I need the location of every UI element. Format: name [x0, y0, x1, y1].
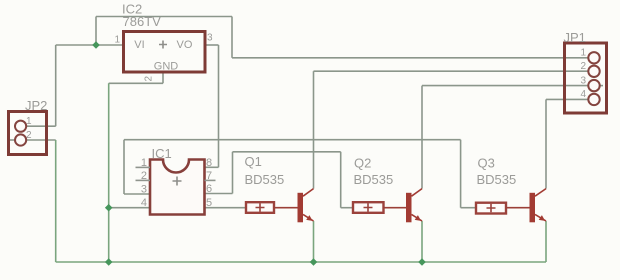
svg-text:Q3: Q3 — [478, 156, 495, 171]
JP2 connector body — [9, 112, 47, 155]
wire IC1 pin3 riser — [123, 140, 125, 194]
wire GND net: stub left of JP2 pin2 — [9, 139, 15, 141]
JP1 pin 4 circle — [588, 94, 599, 105]
svg-text:1: 1 — [141, 157, 147, 169]
Q3 plus sign — [487, 204, 496, 212]
wire GND net: JP2 pin2 horizontal — [26, 139, 56, 141]
wire GND net: left vertical down — [55, 140, 57, 262]
svg-text:4: 4 — [141, 197, 147, 209]
wire VO net: regulator pin3 stub — [205, 44, 219, 46]
svg-text:7: 7 — [206, 170, 212, 182]
wire VI net: left vertical up — [55, 45, 57, 126]
wire IC1 pin6 to Q2 base: pin6 horizontal — [205, 193, 233, 195]
wire IC1 pin3 to Q3 base: pin3 horizontal — [124, 193, 150, 195]
wire VI net: JP2 pin1 horizontal — [26, 125, 56, 127]
wire IC1 pin6 riser — [232, 152, 234, 194]
wire VI net: horizontal into regulator VI pin — [56, 44, 124, 46]
wire IC1 pin5 to Q1 plus box — [205, 207, 247, 209]
transistor Q2 emitter arrow — [415, 215, 421, 221]
svg-text:VO: VO — [177, 39, 193, 51]
IC2 plus symbol — [159, 41, 167, 49]
transistor Q1 base bar — [298, 193, 304, 223]
wire Q3 base riser — [460, 140, 462, 208]
IC2 voltage regulator body — [124, 32, 206, 73]
wire VI net: vertical above junction — [95, 17, 97, 46]
transistor Q2 base bar — [406, 193, 412, 223]
svg-text:GND: GND — [154, 61, 179, 73]
wire Q1 collector to JP1 pin2 — [314, 70, 590, 72]
IC1 plus symbol — [173, 177, 182, 186]
Q1 base stub maroon — [274, 207, 298, 209]
svg-text:1: 1 — [114, 35, 120, 46]
wire IC1 pin6 horizontal to Q2 — [233, 151, 341, 153]
wire Q2 collector riser — [421, 86, 423, 189]
svg-text:5: 5 — [206, 197, 212, 209]
wire VI net: drop to JP1 pin1 level — [231, 17, 233, 58]
JP2 pin 1 circle — [15, 121, 26, 132]
svg-text:4: 4 — [580, 89, 586, 100]
wire VI net: long horizontal to JP1 pin1 — [232, 57, 589, 59]
JP1 pin 1 circle — [588, 52, 599, 63]
junction GND rail at Q2 emitter — [418, 258, 426, 266]
wire stub right of JP1 pin3 — [600, 85, 604, 87]
wire Q2 collector to JP1 pin3 — [422, 85, 589, 87]
svg-text:BD535: BD535 — [354, 172, 394, 187]
svg-text:2: 2 — [141, 170, 147, 182]
transistor Q3 base bar — [530, 193, 536, 223]
svg-text:786TV: 786TV — [123, 14, 162, 29]
wire VI net: top horizontal — [96, 16, 232, 18]
wire Q1 collector riser — [313, 71, 315, 188]
svg-text:VI: VI — [134, 39, 144, 51]
transistor Q1 emitter arrow — [306, 215, 312, 221]
svg-text:JP2: JP2 — [25, 98, 47, 113]
junction GND rail at Q1 emitter — [310, 258, 318, 266]
svg-text:2: 2 — [26, 130, 32, 141]
wire GND net: into IC1 pin4 — [109, 207, 150, 209]
wire IC1 pin3 long horizontal — [124, 139, 461, 141]
Q2 plus sign — [364, 203, 373, 211]
svg-text:Q1: Q1 — [245, 154, 262, 169]
wire VO net: into IC1 pin8 — [205, 166, 219, 168]
wire JP1 pin4 horizontal — [546, 98, 588, 100]
wire VO net: vertical down to IC1 pin8 — [218, 45, 220, 167]
wire GND net: Q1 emitter drop — [313, 221, 315, 262]
svg-text:JP1: JP1 — [564, 30, 586, 45]
wire into Q2 plus box — [341, 207, 353, 209]
svg-text:Q2: Q2 — [354, 156, 371, 171]
JP2 pin 2 circle — [15, 134, 26, 145]
Q1 base resistor plus box — [246, 202, 274, 213]
svg-text:BD535: BD535 — [477, 172, 517, 187]
Q3 base resistor plus box — [476, 203, 506, 214]
junction VI net at regulator input — [92, 41, 100, 49]
svg-text:3: 3 — [207, 33, 213, 44]
Q1 plus sign — [256, 203, 265, 211]
wire GND net: bottom ground rail — [56, 261, 546, 263]
svg-text:IC1: IC1 — [152, 146, 172, 161]
IC1 pin 7 stub — [205, 179, 216, 181]
wire GND net: horizontal under regulator — [109, 82, 163, 84]
JP1 pin 3 circle — [588, 80, 599, 91]
svg-text:3: 3 — [141, 184, 147, 196]
svg-text:6: 6 — [206, 183, 212, 195]
wire GND net: Q3 emitter drop — [545, 221, 547, 262]
IC1 pin 1 stub — [136, 166, 151, 168]
wire GND net: vertical to ground rail — [108, 83, 110, 262]
transistor Q1 collector diagonal — [303, 189, 314, 197]
wire into Q3 plus box — [461, 207, 476, 209]
junction GND rail below regulator — [105, 258, 113, 266]
svg-text:2: 2 — [144, 76, 155, 82]
svg-text:2: 2 — [580, 61, 586, 72]
Q2 base stub maroon — [384, 207, 407, 209]
svg-text:8: 8 — [206, 157, 212, 169]
IC1 body with notch — [150, 160, 205, 215]
transistor Q3 collector diagonal — [535, 189, 546, 197]
svg-text:3: 3 — [580, 75, 586, 86]
IC1 pin 2 stub — [136, 179, 151, 181]
transistor Q2 collector diagonal — [412, 189, 423, 197]
JP1 pin 2 circle — [588, 66, 599, 77]
Q2 base resistor plus box — [353, 202, 384, 213]
transistor Q1 emitter diagonal — [303, 214, 314, 221]
Q3 base stub maroon — [506, 207, 530, 209]
svg-text:BD535: BD535 — [245, 172, 285, 187]
svg-text:1: 1 — [580, 48, 586, 59]
transistor Q3 emitter arrow — [539, 215, 545, 221]
wire Q2 base riser — [340, 152, 342, 208]
wire GND net: Q2 emitter drop — [421, 221, 423, 262]
junction GND at IC1 pin4 tee — [105, 204, 113, 212]
transistor Q3 emitter diagonal — [535, 214, 546, 221]
JP1 connector body — [565, 43, 607, 113]
svg-text:1: 1 — [26, 116, 32, 127]
wire Q3 collector riser — [545, 99, 547, 188]
wire GND net: regulator pin2 down stub — [162, 72, 164, 83]
transistor Q2 emitter diagonal — [412, 214, 423, 221]
